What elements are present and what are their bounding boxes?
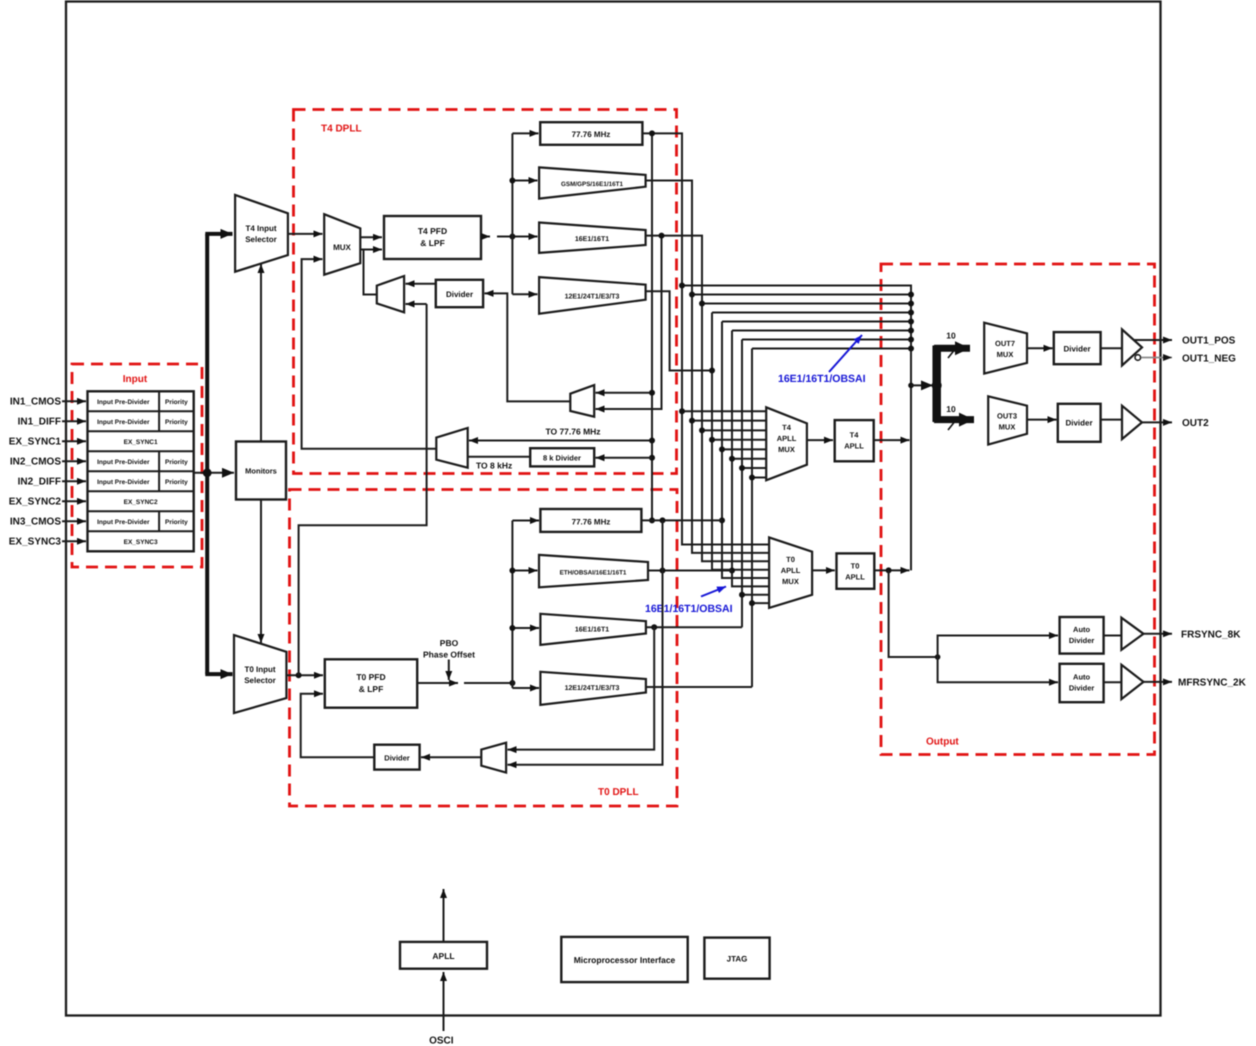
svg-text:OUT1_POS: OUT1_POS bbox=[1182, 336, 1236, 347]
node thick bar junction bbox=[932, 380, 942, 390]
svg-text:Output: Output bbox=[926, 737, 959, 748]
thick arrow to OUT3 MUX bbox=[934, 416, 974, 423]
wire OUT2 bbox=[1142, 421, 1172, 423]
wire vertical 5 to T0 APLL MUX in5 bbox=[722, 322, 769, 579]
Microprocessor Interface box bbox=[561, 937, 687, 982]
wire vertical 6 to T0 APLL MUX in6 bbox=[732, 331, 769, 587]
mux T4 APLL MUX bbox=[766, 407, 807, 480]
svg-text:TO 8 kHz: TO 8 kHz bbox=[476, 461, 512, 471]
T0 PFD & LPF box bbox=[325, 659, 417, 707]
wire vertical 8 bbox=[751, 349, 753, 688]
thick arrow to OUT7 MUX bbox=[934, 345, 970, 352]
8 k Divider box bbox=[530, 448, 594, 466]
svg-text:JTAG: JTAG bbox=[727, 955, 748, 964]
svg-text:OSCI: OSCI bbox=[429, 1036, 454, 1046]
wire 77.76 T0 output bbox=[641, 519, 722, 521]
wire T0 Input Selector to T0 PFD bbox=[286, 674, 323, 676]
mux T4 feedback select bbox=[377, 276, 404, 312]
wire T0 branch vertical bbox=[511, 521, 513, 689]
wire V5 to T0 feedback mux input A bbox=[508, 627, 655, 749]
wires T4 APLL MUX inputs bbox=[682, 411, 766, 477]
svg-text:Priority: Priority bbox=[165, 519, 188, 526]
svg-text:OUT7: OUT7 bbox=[995, 339, 1015, 348]
svg-text:Divider: Divider bbox=[384, 754, 410, 763]
svg-text:Input Pre-Divider: Input Pre-Divider bbox=[97, 479, 150, 486]
node T0 PFD out junction bbox=[509, 680, 515, 686]
wire to Auto Divider 2 bbox=[938, 657, 1058, 682]
svg-text:Selector: Selector bbox=[244, 676, 276, 685]
svg-text:MUX: MUX bbox=[999, 423, 1016, 432]
wire into ETH block bbox=[512, 570, 537, 572]
blue arrow (bottom) bbox=[701, 587, 726, 597]
wire Divider to buffer bbox=[1101, 419, 1122, 421]
wire IN1_DIFF bbox=[62, 420, 86, 422]
wire OUT1_NEG bbox=[1141, 357, 1172, 359]
wire T0 feedback mux to Divider bbox=[421, 756, 481, 758]
wire IN2_CMOS bbox=[62, 460, 86, 462]
T0 Input Selector bbox=[234, 635, 286, 713]
wire T4 feedback to T4 PFD bbox=[364, 250, 383, 295]
svg-text:Input: Input bbox=[123, 374, 148, 385]
wire Monitors to T4 Input Selector bbox=[260, 264, 262, 442]
bus line 3 bbox=[702, 303, 911, 305]
Auto Divider box 1 bbox=[1060, 617, 1104, 654]
node T0 APLL output junction bbox=[886, 567, 892, 573]
svg-text:77.76 MHz: 77.76 MHz bbox=[572, 130, 611, 139]
node 77.76 T0 junction bbox=[660, 517, 666, 523]
mux MUX (T4) bbox=[324, 214, 360, 275]
block ETH/OBSAI/16E1/16T1 bbox=[539, 555, 648, 587]
svg-text:T4 PFD: T4 PFD bbox=[418, 226, 447, 236]
node T0 branch junctions bbox=[509, 568, 515, 574]
block 16E1/16T1 (T0) bbox=[540, 614, 646, 645]
svg-text:T0: T0 bbox=[786, 555, 795, 564]
svg-text:MUX: MUX bbox=[997, 350, 1014, 359]
svg-text:77.76 MHz: 77.76 MHz bbox=[572, 518, 611, 527]
wire Divider to buffer bbox=[1101, 347, 1122, 349]
node 16E1 T0 junction bbox=[651, 624, 657, 630]
svg-text:16E1/16T1: 16E1/16T1 bbox=[575, 626, 609, 634]
svg-text:8 k Divider: 8 k Divider bbox=[543, 454, 581, 463]
T4 PFD & LPF box bbox=[384, 216, 481, 259]
block 12E1/24T1/E3/T3 (T4) bbox=[539, 277, 646, 314]
wire OUT3 MUX to Divider bbox=[1027, 419, 1057, 421]
svg-text:EX_SYNC2: EX_SYNC2 bbox=[124, 499, 158, 506]
node 16E1 T4 junction bbox=[659, 233, 665, 239]
wire table to Monitors bbox=[194, 472, 234, 474]
svg-text:EX_SYNC1: EX_SYNC1 bbox=[9, 437, 62, 448]
wire V1 to select mux in1 bbox=[596, 392, 653, 394]
Monitors box bbox=[236, 442, 286, 500]
wire vertical 8 to T0 APLL MUX in8 bbox=[752, 602, 769, 604]
wire 16E1 T4 output to bus line 3 and T0 APLL MUX in3 bbox=[646, 236, 770, 562]
thick input bus vertical bbox=[205, 234, 209, 674]
wire 12E1 T4 output bbox=[646, 291, 712, 370]
wire GSM output to bus line 2 and T0 APLL MUX in2 bbox=[646, 181, 770, 553]
svg-text:Input Pre-Divider: Input Pre-Divider bbox=[97, 519, 150, 526]
svg-text:T0 Input: T0 Input bbox=[244, 665, 275, 674]
svg-text:FRSYNC_8K: FRSYNC_8K bbox=[1181, 630, 1241, 641]
svg-text:& LPF: & LPF bbox=[359, 684, 384, 694]
svg-text:T0: T0 bbox=[851, 562, 860, 571]
wire 8 k Divider to TO mux (TO 8 kHz) bbox=[468, 456, 531, 458]
JTAG box bbox=[704, 938, 769, 979]
block 16E1/16T1 (T4) bbox=[539, 223, 646, 253]
svg-text:T4 DPLL: T4 DPLL bbox=[321, 124, 362, 135]
svg-text:OUT1_NEG: OUT1_NEG bbox=[1182, 354, 1236, 365]
svg-text:Priority: Priority bbox=[165, 399, 188, 406]
svg-text:Divider: Divider bbox=[1069, 684, 1095, 693]
svg-text:12E1/24T1/E3/T3: 12E1/24T1/E3/T3 bbox=[565, 684, 620, 692]
wire Monitors to T0 Input Selector bbox=[260, 500, 262, 644]
svg-text:TO 77.76 MHz: TO 77.76 MHz bbox=[545, 427, 600, 437]
svg-text:10: 10 bbox=[946, 404, 956, 414]
svg-text:Monitors: Monitors bbox=[245, 467, 277, 476]
wire into 12E1 T0 block bbox=[512, 687, 539, 689]
wire feedback divider select mux to Divider bbox=[485, 293, 571, 401]
svg-text:T4 Input: T4 Input bbox=[245, 224, 276, 233]
svg-text:ETH/OBSAI/16E1/16T1: ETH/OBSAI/16E1/16T1 bbox=[560, 570, 627, 577]
mux OUT3 MUX bbox=[988, 396, 1027, 444]
block 77.76 MHz (T0) bbox=[540, 509, 641, 532]
svg-text:IN2_DIFF: IN2_DIFF bbox=[18, 477, 61, 488]
node sync junction bbox=[935, 654, 941, 660]
block 12E1/24T1/E3/T3 (T0) bbox=[540, 672, 646, 705]
svg-text:Divider: Divider bbox=[1065, 419, 1092, 428]
svg-text:APLL: APLL bbox=[781, 566, 801, 575]
wire IN1_CMOS bbox=[62, 400, 86, 402]
thick bus to T0 Input Selector bbox=[205, 672, 232, 676]
svg-text:MFRSYNC_2K: MFRSYNC_2K bbox=[1178, 678, 1247, 689]
wire FRSYNC_8K bbox=[1144, 633, 1173, 635]
node dots on vertical column bbox=[679, 283, 755, 607]
wire 12E1 T0 output bbox=[646, 686, 752, 688]
svg-text:APLL: APLL bbox=[845, 573, 865, 582]
T4 Input Selector bbox=[235, 195, 288, 272]
Auto Divider box 2 bbox=[1060, 664, 1104, 702]
svg-text:Input Pre-Divider: Input Pre-Divider bbox=[97, 399, 150, 406]
bus line 2 bbox=[692, 294, 911, 296]
Divider box (OUT1) bbox=[1054, 332, 1101, 364]
wire EX_SYNC3 bbox=[62, 540, 86, 542]
wire into GSM block bbox=[512, 180, 537, 182]
wire T0 ref to feedback mux input B and T0 PFD bbox=[406, 303, 427, 305]
svg-text:EX_SYNC3: EX_SYNC3 bbox=[9, 537, 62, 548]
wire T0 feedback to T0 PFD bbox=[301, 694, 375, 758]
thick output bar bbox=[932, 346, 941, 423]
node T0 reference junction bbox=[296, 672, 302, 678]
wire MUX lower output stub bbox=[360, 249, 364, 251]
block 77.76 MHz (T4) bbox=[540, 122, 642, 145]
wire Auto Divider 2 to buffer bbox=[1104, 681, 1122, 683]
svg-text:T4: T4 bbox=[850, 431, 860, 440]
input table bbox=[88, 391, 194, 551]
svg-text:16E1/16T1/OBSAI: 16E1/16T1/OBSAI bbox=[645, 603, 733, 615]
bus line 8 bbox=[752, 348, 911, 350]
svg-text:PBO: PBO bbox=[440, 638, 459, 648]
wire EX_SYNC2 bbox=[62, 500, 86, 502]
wire T4 Input Selector to MUX bbox=[288, 233, 323, 235]
mux OUT7 MUX bbox=[984, 323, 1027, 374]
svg-text:Divider: Divider bbox=[1069, 636, 1095, 645]
wire to Auto Divider 1 bbox=[938, 636, 1058, 658]
slash mark (bottom) bbox=[948, 420, 956, 430]
svg-text:Auto: Auto bbox=[1073, 625, 1090, 634]
wire OSCI input bbox=[443, 972, 445, 1031]
wire Divider to feedback mux bbox=[406, 283, 436, 285]
wire OUT7 MUX to Divider bbox=[1027, 347, 1053, 349]
svg-text:Divider: Divider bbox=[446, 290, 473, 299]
bus line 1 bbox=[682, 286, 911, 571]
inverter bubble bbox=[1135, 355, 1141, 361]
node ETH junction bbox=[660, 568, 666, 574]
svg-text:12E1/24T1/E3/T3: 12E1/24T1/E3/T3 bbox=[565, 293, 620, 301]
svg-text:Input Pre-Divider: Input Pre-Divider bbox=[97, 419, 150, 426]
node branch junction GSM bbox=[509, 178, 515, 184]
wire T4 APLL MUX to T4 APLL bbox=[807, 439, 833, 441]
node V1 junctions bbox=[649, 130, 655, 136]
bus line 4 bbox=[712, 312, 911, 314]
wire T4 77.76 output to bus line 1 and T0 APLL MUX in1 bbox=[642, 133, 769, 544]
Divider box (T0) bbox=[374, 745, 419, 770]
svg-text:OUT2: OUT2 bbox=[1182, 418, 1209, 429]
wire T4 APLL output to bus vertical bbox=[874, 439, 910, 441]
wire PBO arrow bbox=[448, 660, 450, 681]
T0 APLL box bbox=[837, 553, 875, 588]
svg-text:MUX: MUX bbox=[778, 445, 795, 454]
svg-text:T0 DPLL: T0 DPLL bbox=[598, 787, 639, 798]
svg-text:IN1_DIFF: IN1_DIFF bbox=[18, 417, 61, 428]
svg-text:T4: T4 bbox=[782, 423, 792, 432]
svg-text:Phase Offset: Phase Offset bbox=[423, 650, 475, 660]
wire MUX to T4 PFD bbox=[360, 236, 382, 238]
svg-text:MUX: MUX bbox=[782, 577, 799, 586]
svg-text:MUX: MUX bbox=[333, 243, 351, 252]
wire OUT1_POS bbox=[1134, 339, 1173, 341]
Input section red dashed box bbox=[72, 364, 202, 567]
svg-text:IN1_CMOS: IN1_CMOS bbox=[10, 397, 61, 408]
buffer OUT2 bbox=[1122, 406, 1142, 439]
svg-text:APLL: APLL bbox=[844, 442, 864, 451]
wire V2b to T0 feedback mux input B bbox=[508, 520, 663, 764]
wire into 12E1 T4 block bbox=[512, 293, 537, 295]
svg-text:Divider: Divider bbox=[1063, 345, 1090, 354]
bus line 6 bbox=[732, 330, 911, 332]
wire into T4 77.76 MHz bbox=[512, 132, 538, 134]
junction on thick bus bbox=[203, 468, 212, 477]
svg-text:GSM/GPS/16E1/16T1: GSM/GPS/16E1/16T1 bbox=[561, 181, 623, 188]
Output section red dashed box bbox=[881, 264, 1155, 755]
svg-text:16E1/16T1/OBSAI: 16E1/16T1/OBSAI bbox=[778, 373, 866, 385]
wire V1 to 8 k Divider bbox=[596, 457, 653, 459]
wire APLL up arrow bbox=[443, 889, 445, 942]
block GSM/GPS/16E1/16T1 bbox=[539, 167, 646, 198]
wire EX_SYNC1 bbox=[62, 440, 86, 442]
APLL box bbox=[400, 942, 487, 969]
wire MFRSYNC_2K bbox=[1144, 681, 1173, 683]
svg-text:T0 PFD: T0 PFD bbox=[356, 672, 385, 682]
T4 DPLL red dashed box bbox=[294, 110, 677, 474]
mux feedback divider select bbox=[570, 385, 594, 417]
wire vertical 4 to T0 APLL MUX in4 bbox=[712, 313, 769, 570]
bus line 5 bbox=[722, 321, 911, 323]
svg-text:Priority: Priority bbox=[165, 459, 188, 466]
svg-text:APLL: APLL bbox=[777, 434, 797, 443]
wire T0 PFD output bbox=[417, 682, 458, 684]
thick bus to T4 Input Selector bbox=[205, 232, 232, 236]
svg-text:EX_SYNC3: EX_SYNC3 bbox=[124, 539, 158, 546]
svg-text:EX_SYNC2: EX_SYNC2 bbox=[9, 497, 62, 508]
buffer MFRSYNC bbox=[1121, 665, 1143, 699]
svg-text:IN3_CMOS: IN3_CMOS bbox=[10, 517, 61, 528]
Divider box (T4) bbox=[436, 280, 483, 307]
blue arrow (top) bbox=[829, 335, 862, 372]
wire T0 APLL to sync dividers bbox=[889, 570, 938, 657]
svg-text:Priority: Priority bbox=[165, 479, 188, 486]
svg-text:APLL: APLL bbox=[432, 951, 454, 961]
wire into T0 77.76 MHz bbox=[512, 520, 539, 522]
wire T0 APLL MUX to T0 APLL bbox=[812, 569, 835, 571]
svg-text:IN2_CMOS: IN2_CMOS bbox=[10, 457, 61, 468]
wire TO 77.76 MHz into mux bbox=[469, 440, 652, 442]
buffer FRSYNC bbox=[1121, 618, 1143, 650]
buffer OUT1 bbox=[1122, 329, 1142, 365]
svg-text:& LPF: & LPF bbox=[420, 238, 445, 248]
bus line 7 bbox=[742, 339, 911, 341]
wire vertical 7 bbox=[741, 340, 743, 628]
wire IN3_CMOS bbox=[62, 520, 86, 522]
mux T0 APLL MUX bbox=[769, 537, 812, 608]
wire 16E1 T0 output bbox=[646, 626, 742, 628]
wire vertical 7 to T0 APLL MUX in7 bbox=[742, 594, 769, 596]
wire T0 APLL output to bus vertical bbox=[874, 569, 909, 571]
wire T4 PFD output bbox=[481, 236, 490, 238]
wire 16E1 T4 vertical to select mux in2 bbox=[596, 236, 662, 409]
node dots on bus right vertical bbox=[908, 292, 914, 389]
svg-text:Input Pre-Divider: Input Pre-Divider bbox=[97, 459, 150, 466]
wire bus vertical to thick output bar bbox=[911, 384, 933, 386]
mux TO reference select bbox=[436, 428, 467, 468]
T0 DPLL red dashed box bbox=[290, 490, 678, 807]
svg-text:16E1/16T1: 16E1/16T1 bbox=[575, 235, 609, 243]
wire IN2_DIFF bbox=[62, 480, 86, 482]
wire ETH output bbox=[648, 570, 732, 572]
T4 APLL box bbox=[835, 420, 874, 461]
svg-text:Selector: Selector bbox=[245, 235, 277, 244]
Divider box (OUT2) bbox=[1058, 404, 1101, 442]
svg-text:OUT3: OUT3 bbox=[997, 412, 1017, 421]
svg-text:10: 10 bbox=[946, 331, 956, 341]
wire vertical V1 bbox=[651, 133, 653, 520]
svg-text:Priority: Priority bbox=[165, 419, 188, 426]
wire T0 reference to MUX input 2 bbox=[302, 259, 437, 449]
svg-text:Microprocessor Interface: Microprocessor Interface bbox=[574, 955, 676, 965]
svg-text:Auto: Auto bbox=[1073, 673, 1090, 682]
mux T0 feedback select bbox=[481, 743, 506, 773]
wire T4 branch vertical bbox=[511, 133, 513, 294]
slash mark (top) bbox=[948, 348, 956, 358]
node T4 PFD out junction bbox=[509, 234, 515, 240]
svg-text:EX_SYNC1: EX_SYNC1 bbox=[124, 439, 158, 446]
wire into 16E1 T0 block bbox=[512, 627, 539, 629]
wire Auto Divider 1 to buffer bbox=[1104, 635, 1122, 637]
